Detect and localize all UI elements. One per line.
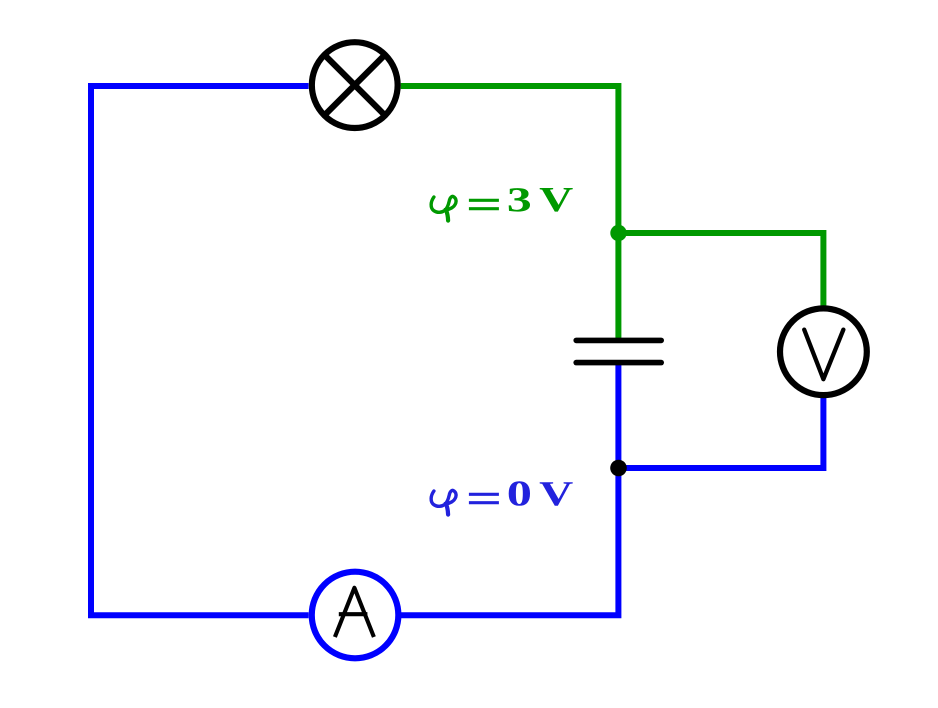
node phi=0V junction (610, 460, 627, 477)
wire blue bottom right segment (401, 363, 619, 616)
label phi = 3 V (431, 188, 573, 221)
node phi=3V junction (610, 225, 626, 241)
voltmeter V1 (780, 308, 867, 395)
wire green voltmeter branch (618, 233, 823, 306)
ammeter A1 (312, 572, 399, 659)
wire blue voltmeter branch (618, 398, 823, 468)
wire blue left loop (91, 86, 309, 615)
capacitor C1 (576, 340, 661, 362)
lamp L1 (312, 42, 398, 128)
wire green top segment (401, 86, 619, 340)
label phi = 0 V (431, 481, 573, 514)
